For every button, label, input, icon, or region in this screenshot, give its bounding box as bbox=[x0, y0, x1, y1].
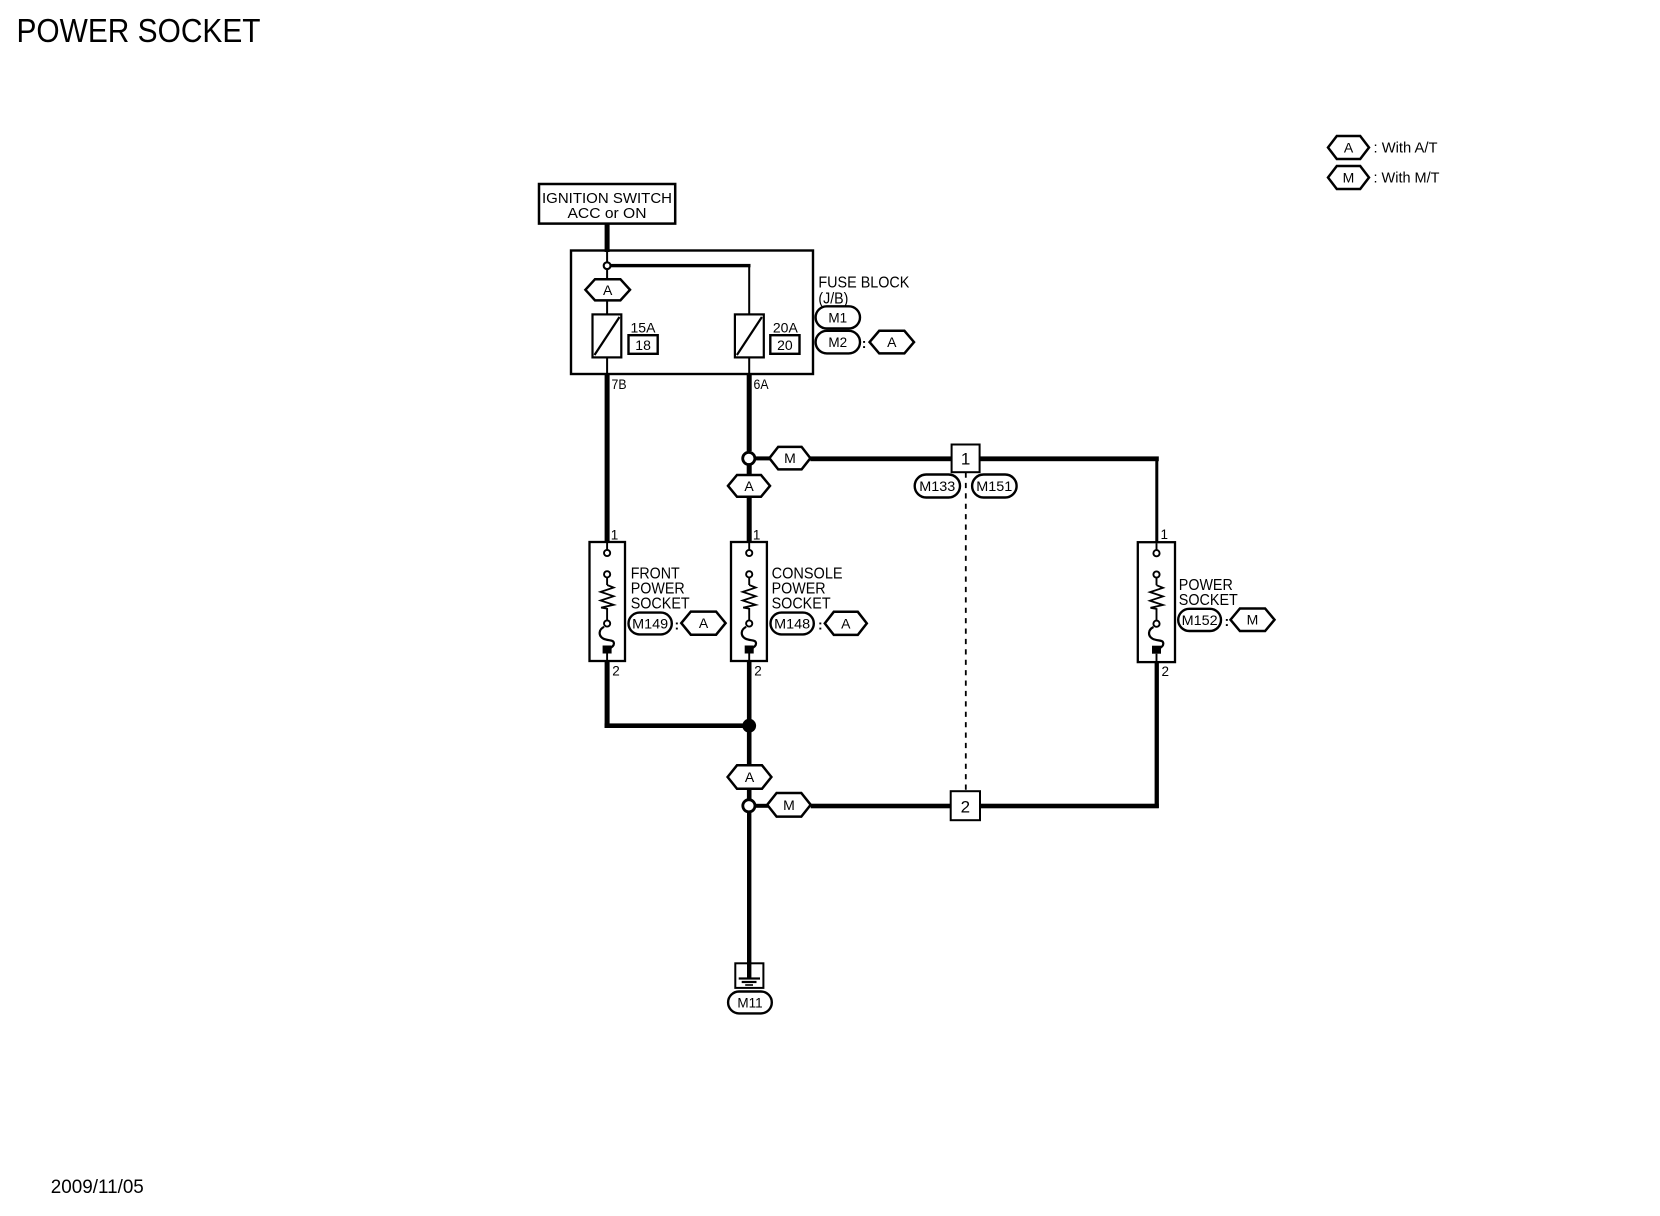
svg-text:: With A/T: : With A/T bbox=[1374, 140, 1438, 157]
fuse block rect bbox=[571, 251, 813, 375]
svg-text:M133: M133 bbox=[919, 479, 955, 494]
legend hexagon M bbox=[1328, 166, 1369, 189]
hexagon A after M148 bbox=[825, 612, 867, 635]
svg-text:M148: M148 bbox=[774, 616, 810, 631]
wire 7B feed bbox=[605, 374, 610, 542]
wire ignition switch to fuse block bbox=[605, 222, 610, 252]
connector M149 bbox=[629, 613, 672, 635]
svg-text:2: 2 bbox=[1162, 664, 1170, 679]
hexagon M after M152 bbox=[1231, 609, 1275, 632]
hexagon A after M149 bbox=[681, 612, 725, 635]
svg-text:A: A bbox=[699, 615, 709, 631]
wire square 1 to right corner bbox=[979, 456, 1159, 461]
svg-text:A: A bbox=[841, 615, 851, 631]
svg-text:20: 20 bbox=[777, 337, 793, 353]
junction circle top bbox=[743, 452, 755, 464]
svg-text:20A: 20A bbox=[773, 320, 799, 336]
ground bar 1 bbox=[739, 977, 760, 979]
console power socket box bbox=[731, 542, 767, 661]
svg-text:2009/11/05: 2009/11/05 bbox=[51, 1177, 144, 1198]
wire square 2 to right corner bbox=[979, 804, 1159, 809]
junction dot bbox=[742, 719, 756, 733]
wire circle to hex M lower bbox=[754, 804, 768, 808]
square 1 bbox=[952, 445, 980, 473]
svg-text:1: 1 bbox=[961, 450, 970, 469]
svg-text:1: 1 bbox=[611, 528, 619, 543]
wire circle to console socket bbox=[747, 463, 752, 542]
svg-text:: With M/T: : With M/T bbox=[1374, 170, 1440, 187]
front socket internals bbox=[600, 543, 614, 660]
svg-text:M149: M149 bbox=[632, 616, 668, 631]
wire hex A to fuse 15A bbox=[606, 300, 608, 314]
svg-text:1: 1 bbox=[1161, 527, 1169, 542]
ignition switch box bbox=[539, 184, 675, 224]
wire circle to hex M bbox=[754, 456, 770, 460]
connector M1 bbox=[816, 306, 860, 328]
ground wire into box bbox=[747, 964, 751, 978]
wire 15A fuse to block bottom bbox=[606, 357, 608, 374]
svg-text:6A: 6A bbox=[754, 376, 770, 392]
wire hex M lower to square 2 bbox=[811, 804, 952, 809]
ground bar 3 bbox=[745, 984, 753, 986]
svg-text:1: 1 bbox=[753, 528, 761, 543]
svg-text:7B: 7B bbox=[612, 376, 627, 392]
wire junction to lower circle bbox=[747, 766, 752, 801]
wire right corner down to power socket bbox=[1155, 458, 1158, 543]
svg-text:SOCKET: SOCKET bbox=[1179, 592, 1238, 609]
hexagon A after M2 bbox=[870, 331, 914, 354]
connector M152 bbox=[1178, 609, 1221, 631]
connector M2 bbox=[816, 331, 860, 354]
ground bar 2 bbox=[742, 981, 757, 983]
wire node to 20A fuse horizontal bbox=[607, 264, 751, 267]
svg-text:A: A bbox=[744, 478, 754, 494]
wire node to hex A bbox=[606, 269, 608, 280]
wire front socket below bbox=[605, 661, 610, 728]
svg-text:M: M bbox=[783, 797, 795, 813]
svg-text:M151: M151 bbox=[976, 479, 1012, 494]
svg-text:(J/B): (J/B) bbox=[818, 290, 848, 307]
hexagon M mid bbox=[769, 447, 810, 470]
node circle bbox=[604, 262, 611, 269]
power socket internals bbox=[1149, 543, 1163, 661]
svg-text:ACC or ON: ACC or ON bbox=[568, 206, 647, 222]
svg-text::: : bbox=[862, 335, 867, 351]
svg-text:SOCKET: SOCKET bbox=[631, 596, 690, 613]
wire 20A fuse to block bottom bbox=[748, 357, 750, 374]
svg-text:IGNITION SWITCH: IGNITION SWITCH bbox=[542, 191, 672, 207]
svg-text:M2: M2 bbox=[828, 335, 847, 350]
svg-text:2: 2 bbox=[754, 663, 762, 678]
box 20 bbox=[770, 335, 799, 354]
hexagon A mid bbox=[728, 475, 770, 497]
ground symbol box bbox=[735, 963, 763, 988]
wire down to 20A fuse bbox=[748, 265, 750, 315]
svg-text::: : bbox=[818, 617, 823, 633]
connector M151 bbox=[972, 475, 1017, 498]
svg-text:2: 2 bbox=[612, 663, 620, 678]
svg-text:M: M bbox=[1343, 170, 1355, 186]
svg-text::: : bbox=[675, 617, 680, 633]
fuse 15A symbol bbox=[593, 314, 622, 357]
svg-text:18: 18 bbox=[635, 337, 651, 353]
svg-text:A: A bbox=[887, 334, 897, 350]
hexagon A lower bbox=[728, 765, 772, 789]
svg-text:A: A bbox=[745, 769, 755, 785]
legend hexagon A bbox=[1328, 136, 1369, 159]
box 18 bbox=[629, 335, 658, 354]
fuse 20A symbol bbox=[735, 314, 764, 357]
wire lower circle to ground bbox=[747, 811, 751, 978]
connector M11 bbox=[728, 992, 772, 1014]
right vertical wire lower bbox=[1155, 662, 1159, 808]
svg-text:15A: 15A bbox=[631, 320, 657, 336]
svg-text::: : bbox=[1225, 613, 1230, 629]
svg-text:M: M bbox=[784, 450, 796, 466]
wire hex M to square 1 bbox=[810, 456, 952, 461]
console socket internals bbox=[742, 543, 756, 660]
connector M133 bbox=[915, 475, 960, 498]
hexagon M lower bbox=[767, 793, 811, 817]
wire horizontal to junction bbox=[605, 723, 752, 728]
svg-text:SOCKET: SOCKET bbox=[772, 596, 831, 613]
wire console socket below to junction bbox=[747, 661, 752, 766]
wire 6A feed bbox=[747, 374, 752, 451]
dashed line between squares bbox=[965, 473, 967, 792]
svg-text:M11: M11 bbox=[737, 995, 762, 1010]
square 2 bbox=[951, 791, 980, 820]
svg-text:M: M bbox=[1247, 612, 1259, 628]
lower connector circle bbox=[743, 800, 755, 812]
connector M148 bbox=[771, 613, 814, 635]
power socket box right bbox=[1138, 542, 1175, 662]
svg-text:A: A bbox=[603, 282, 613, 298]
hexagon A in fuse block bbox=[585, 279, 630, 300]
svg-text:M1: M1 bbox=[828, 310, 847, 325]
svg-text:POWER SOCKET: POWER SOCKET bbox=[17, 12, 261, 49]
front power socket box bbox=[590, 542, 626, 661]
svg-text:A: A bbox=[1344, 140, 1354, 156]
svg-text:2: 2 bbox=[961, 797, 970, 816]
svg-text:M152: M152 bbox=[1182, 613, 1218, 628]
wire node stub bbox=[606, 252, 608, 262]
svg-text:FUSE BLOCK: FUSE BLOCK bbox=[818, 275, 910, 292]
